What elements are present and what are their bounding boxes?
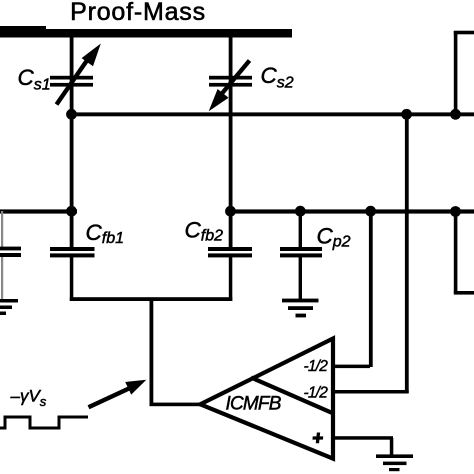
capacitor Cs1 (50, 44, 101, 105)
ground below Cp2 (282, 299, 319, 318)
wire: vertical x=407 from sense node to amp (405, 114, 409, 393)
capacitor Cfb2 (208, 247, 252, 257)
wire: sense node horizontal y=114 (70, 112, 474, 116)
label Cs1 (18, 65, 51, 94)
junction dot (300,211) (295, 206, 306, 217)
wire: Cs2/Cfb2 vertical branch x=230 (229, 36, 233, 247)
label Cp2 (317, 224, 351, 251)
svg-text:Cfb2: Cfb2 (185, 218, 224, 245)
svg-text:Proof-Mass: Proof-Mass (70, 0, 206, 26)
op-amp U1 ICMFB (200, 339, 333, 459)
label -1/2 upper (304, 358, 329, 375)
wire: vertical x=370 from mid node to amp (369, 211, 373, 367)
wire: left node horizontal y=211 (clipped Cp1 branch) (0, 209, 77, 213)
label Cfb2 (185, 218, 224, 245)
wire: feedback tee vertical x=150 (150, 298, 154, 405)
label Proof-Mass (70, 0, 206, 26)
svg-text:-1/2: -1/2 (304, 385, 329, 402)
waveform -gamma Vs (0, 417, 88, 428)
wire: top-right bracket to next stage (454, 31, 474, 114)
ground at left edge (0, 299, 18, 315)
proof-mass top electrode bar (0, 26, 292, 38)
wire: + input y=438 (333, 436, 393, 455)
wire: to amp apex y=404 (150, 403, 202, 407)
svg-text:Cs2: Cs2 (261, 63, 294, 92)
label Cfb1 (86, 220, 125, 247)
svg-text:Cp2: Cp2 (317, 224, 351, 251)
junction dot (455,114) (450, 109, 461, 120)
label ICMFB (226, 393, 282, 414)
svg-text:–γVs: –γVs (10, 386, 47, 409)
svg-text:-1/2: -1/2 (304, 358, 329, 375)
label + input (312, 433, 324, 444)
wire: Cfb2 bottom vertical (229, 257, 233, 301)
junction dot (230,211) (225, 206, 236, 217)
junction dot (455,211) (450, 206, 461, 217)
wire: bottom rail y=298 (70, 297, 233, 301)
wire: mid node horizontal y=211 (226, 209, 474, 213)
junction dot (406,114) (401, 109, 412, 120)
capacitor Cfb1 (50, 247, 95, 257)
wire: Cs1/Cfb1 vertical branch x=71 (70, 36, 74, 247)
junction dot (71,211) (66, 206, 77, 217)
label Cs2 (261, 63, 294, 92)
arrow pointing to feedback wire (89, 380, 147, 408)
label -1/2 lower (304, 385, 329, 402)
svg-text:ICMFB: ICMFB (226, 393, 282, 414)
wire: Cfb1 bottom vertical (70, 257, 74, 301)
svg-text:Cfb1: Cfb1 (86, 220, 125, 247)
clipped capacitor Cp1 at left edge (0, 211, 21, 299)
label -gamma Vs (10, 386, 47, 409)
wire: lower -1/2 input y=391.5 (333, 390, 409, 394)
svg-text:Cs1: Cs1 (18, 65, 51, 94)
ground at + input (376, 454, 413, 471)
wire: bottom-right bracket to next stage (454, 211, 474, 295)
capacitor Cs2 (209, 61, 252, 112)
junction dot (370,211) (365, 206, 376, 217)
wire: upper -1/2 input y=366 (333, 365, 370, 369)
junction dot at Cs1 bottom (71,114) (66, 109, 77, 120)
capacitor Cp2 (280, 211, 322, 299)
